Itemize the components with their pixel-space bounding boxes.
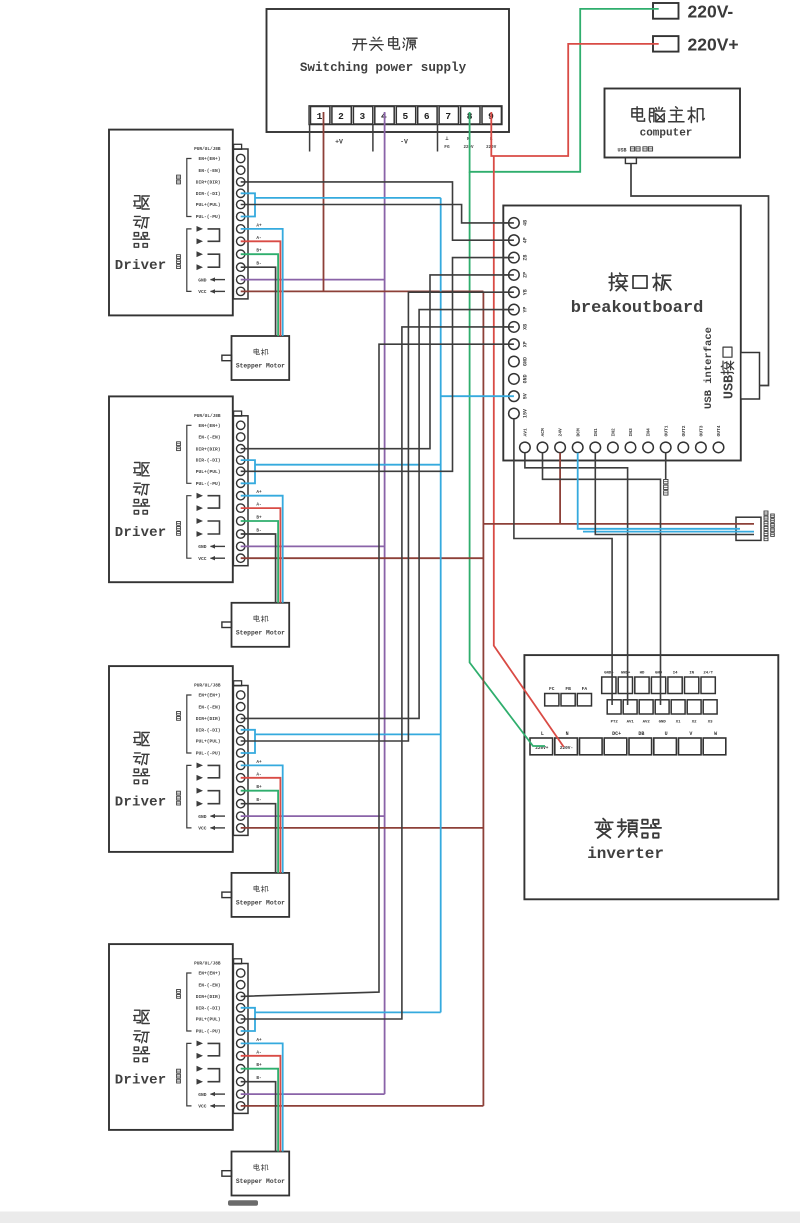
driver U2 terminal 10 [237, 263, 245, 271]
driver U2 pin name labels [194, 147, 221, 220]
driver U3 input group bracket [177, 425, 192, 483]
svg-text:USB: USB [723, 375, 738, 399]
driver U4 terminal 3 [237, 714, 245, 722]
driver U4 terminal 4 [237, 726, 245, 734]
driver U2 terminal 2 [237, 166, 245, 174]
inverter FC FB FA terminals [545, 686, 592, 706]
driver U3 high voltage bracket [177, 496, 192, 559]
wire blue 5V tap driver U5 [255, 1011, 441, 1013]
driver U5 terminal 7 [237, 1039, 245, 1047]
wire DIR driver U2 to pin 2 [241, 182, 514, 240]
wire AV1 to inverter AV1 [525, 453, 628, 705]
wire 15V to inverter PT2 [514, 419, 612, 705]
svg-text:7: 7 [445, 111, 451, 122]
svg-text:B-: B- [256, 529, 261, 534]
svg-text:Switching power supply: Switching power supply [300, 61, 467, 75]
svg-text:FB: FB [565, 686, 571, 692]
board left pin 7 XB [503, 322, 528, 333]
bus -V purple: terminal 4 to driver GND pins [384, 112, 386, 1094]
wire motor phase B- black M3 [241, 804, 276, 873]
svg-text:Driver: Driver [115, 525, 167, 541]
svg-text:GND: GND [198, 277, 207, 283]
svg-text:YB: YB [522, 289, 528, 295]
svg-text:4P: 4P [522, 237, 528, 243]
svg-text:A+: A+ [256, 760, 262, 765]
wire green bus: terminal 8 down to inverter L [470, 172, 545, 746]
board bottom pin 2 ACM [537, 428, 548, 453]
svg-text:DB: DB [638, 731, 644, 737]
svg-text:IN3: IN3 [628, 428, 634, 437]
driver U3 terminal 11 [237, 542, 245, 550]
svg-text:DIR+(DIR): DIR+(DIR) [196, 994, 221, 1000]
wire motor phase A- red M2 [241, 508, 281, 603]
svg-text:X2: X2 [692, 721, 697, 725]
wire PUL driver U5 to pin 7 [241, 327, 514, 1019]
terminal group separators [310, 125, 438, 152]
stepper driver U3 [109, 396, 233, 582]
driver U3 terminal 6 [237, 479, 245, 487]
driver U4 terminal 8 [237, 774, 245, 782]
driver U4 GND pin [198, 814, 225, 820]
svg-text:PUL-(-PU): PUL-(-PU) [196, 481, 221, 487]
wire cyan return to speed connector [583, 531, 754, 533]
driver U3 winding symbols [197, 493, 220, 537]
svg-text:B+: B+ [256, 249, 262, 254]
svg-text:L: L [541, 731, 544, 737]
wire motor phase A+ blue M4 [241, 1043, 283, 1151]
board left pin 10 GND [509, 374, 529, 385]
svg-text:DIR-(-DI): DIR-(-DI) [196, 191, 221, 197]
label speed knob (rotated tiny) [764, 511, 774, 541]
wire ACM to inverter GND [543, 453, 661, 705]
wire purple stub driver U4 GND [241, 815, 385, 817]
svg-text:DC+: DC+ [612, 731, 621, 737]
stepper motor M3 [222, 873, 289, 917]
driver U2 terminal 6 [237, 212, 245, 220]
svg-text:1: 1 [317, 111, 323, 122]
wire VCC driver U4 [241, 827, 484, 829]
wire purple stub driver U3 GND [241, 545, 385, 547]
svg-text:A-: A- [256, 1050, 261, 1055]
driver U3 GND pin [198, 544, 225, 550]
wire 24V feed to speed connector [483, 523, 754, 525]
svg-text:USB interface: USB interface [703, 327, 715, 409]
svg-text:24V: 24V [558, 428, 564, 437]
driver U5 terminal 6 [237, 1027, 245, 1035]
board bottom pin 1 AV1 [520, 428, 531, 453]
svg-text:AV2: AV2 [643, 721, 651, 725]
svg-text:PUL-(-PU): PUL-(-PU) [196, 214, 221, 220]
svg-text:GND: GND [198, 814, 207, 820]
driver U5 GND pin [198, 1092, 225, 1098]
svg-text:I4: I4 [673, 672, 678, 676]
svg-text:Driver: Driver [115, 795, 167, 811]
inverter power terminal row L N DC+ DB U V W [530, 731, 726, 755]
driver U4 winding symbols [197, 763, 220, 807]
wire OUT1 relay stub [665, 453, 667, 480]
svg-text:IN4: IN4 [646, 428, 652, 437]
svg-text:GND: GND [198, 1092, 207, 1098]
svg-text:Stepper Motor: Stepper Motor [236, 1178, 285, 1185]
svg-text:FC: FC [549, 686, 555, 692]
driver U5 pin name labels [194, 962, 221, 1035]
svg-text:2: 2 [338, 111, 344, 122]
svg-text:USB: USB [617, 148, 626, 154]
svg-text:B-: B- [256, 262, 261, 267]
labels A+ A- B+ B- of driver U3 [256, 490, 262, 533]
svg-text:ZP: ZP [522, 272, 528, 278]
220V+ terminal block [653, 35, 739, 55]
wire blue 5V to board pin 11 [441, 395, 514, 397]
driver U4 terminal 6 [237, 749, 245, 757]
svg-text:15V: 15V [522, 409, 528, 418]
USB connector port on board [741, 353, 760, 400]
board bottom pin 3 24V [555, 428, 566, 453]
wire motor phase B+ green M4 [241, 1069, 278, 1152]
wire purple stub driver U2 GND [241, 279, 385, 281]
driver U5 terminal 1 [237, 969, 245, 977]
switching power supply PS1 [267, 9, 510, 132]
inverter VFD1 box [524, 655, 778, 899]
svg-text:ZB: ZB [522, 255, 528, 261]
wire PUL driver U4 to pin 5 [241, 292, 514, 741]
driver U3 terminal 7 [237, 492, 245, 500]
svg-text:GND: GND [522, 374, 528, 383]
driver U5 terminal 11 [237, 1090, 245, 1098]
svg-text:PUL+(PUL): PUL+(PUL) [196, 469, 221, 475]
board left pin 3 ZB [503, 252, 528, 263]
svg-text:EN-(-EN): EN-(-EN) [198, 168, 220, 174]
svg-text:VCC: VCC [198, 556, 207, 562]
driver U5 terminal 2 [237, 981, 245, 989]
svg-text:VCC: VCC [198, 826, 207, 832]
driver U2 terminal 4 [237, 189, 245, 197]
svg-text:FG: FG [444, 144, 450, 150]
driver U2 terminal 7 [237, 225, 245, 233]
svg-text:PUL-(-PU): PUL-(-PU) [196, 1029, 221, 1035]
driver U5 terminal strip [233, 959, 248, 1114]
labels A+ A- B+ B- of driver U2 [256, 223, 262, 266]
svg-text:220V-: 220V- [560, 746, 573, 751]
svg-text:inverter: inverter [587, 845, 664, 863]
driver U4 terminal 2 [237, 703, 245, 711]
labels A+ A- B+ B- of driver U5 [256, 1038, 262, 1081]
wire blue 5V tap driver U3 [255, 464, 441, 466]
driver U2 terminal 12 [237, 287, 245, 295]
wire USB cable: computer to board [631, 164, 769, 386]
driver U5 terminal 9 [237, 1065, 245, 1073]
board left pin 8 XP [503, 339, 528, 350]
svg-text:EN+(EN+): EN+(EN+) [198, 423, 220, 429]
svg-text:DIR+(DIR): DIR+(DIR) [196, 716, 221, 722]
wire purple stub driver U5 GND [241, 1093, 385, 1095]
bus +V dark red: terminal 1 down [323, 112, 325, 291]
driver U4 terminal 9 [237, 787, 245, 795]
label FG [444, 135, 450, 150]
driver U5 VCC pin [198, 1104, 225, 1110]
label USB jiekou [721, 347, 737, 399]
svg-text:XP: XP [522, 341, 528, 347]
svg-text:B+: B+ [256, 516, 262, 521]
driver U5 terminal 5 [237, 1015, 245, 1023]
board bottom pin 9 OUT1 [660, 425, 671, 452]
wire motor phase B+ green M1 [241, 254, 278, 336]
driver U5 input group bracket [177, 973, 192, 1031]
svg-text:computer: computer [640, 128, 693, 140]
svg-text:GND+: GND+ [621, 672, 631, 676]
label L 220V [486, 136, 497, 150]
label USB cable port [617, 147, 652, 154]
driver U2 terminal 9 [237, 250, 245, 258]
svg-text:IN: IN [689, 672, 694, 676]
svg-text:EN-(-EN): EN-(-EN) [198, 982, 220, 988]
driver U4 pin name labels [194, 684, 221, 757]
blue jumper loop driver U2 [241, 193, 255, 216]
driver U4 terminal strip [233, 681, 248, 836]
blue jumper loop driver U5 [241, 1008, 255, 1031]
driver U3 terminal 5 [237, 467, 245, 475]
svg-text:U: U [665, 731, 668, 737]
svg-text:YP: YP [522, 307, 528, 313]
svg-text:XB: XB [522, 324, 528, 330]
svg-text:AV1: AV1 [627, 721, 635, 725]
label relay (rotated tiny) [664, 480, 668, 484]
driver U5 winding symbols [197, 1041, 220, 1085]
bus 5V blue vertical [440, 198, 442, 1013]
blue jumper loop driver U3 [241, 460, 255, 483]
svg-text:PUR/UL/J8B: PUR/UL/J8B [194, 414, 221, 419]
driver U2 terminal 8 [237, 237, 245, 245]
driver U3 terminal 10 [237, 530, 245, 538]
inverter control terminal row 2 [607, 700, 717, 725]
svg-text:W: W [714, 731, 717, 737]
wire blue 5V tap driver U4 [255, 733, 441, 735]
board bottom pin 7 IN3 [625, 428, 636, 453]
svg-text:B+: B+ [256, 785, 262, 790]
wire 220V- green: terminal 8 to 220V- block [470, 9, 659, 172]
wire DIR driver U3 to pin 4 [241, 275, 514, 449]
svg-text:PUL+(PUL): PUL+(PUL) [196, 202, 221, 208]
svg-text:5: 5 [402, 111, 408, 122]
svg-text:DIR-(-DI): DIR-(-DI) [196, 458, 221, 464]
svg-text:DIR+(DIR): DIR+(DIR) [196, 446, 221, 452]
blue jumper loop driver U4 [241, 730, 255, 753]
driver U3 terminal 9 [237, 517, 245, 525]
svg-text:EN+(EN+): EN+(EN+) [198, 971, 220, 977]
svg-text:GND: GND [198, 544, 207, 550]
driver U4 VCC pin [198, 826, 225, 832]
svg-text:GND: GND [659, 721, 667, 725]
svg-text:Driver: Driver [115, 1073, 167, 1089]
svg-text:V: V [689, 731, 692, 737]
wire PUL driver U3 to pin 3 [241, 258, 514, 472]
computer PC1 [605, 89, 741, 158]
stepper motor M4 [222, 1152, 289, 1196]
wire red branch: to inverter N [494, 156, 564, 747]
svg-text:PUL+(PUL): PUL+(PUL) [196, 1017, 221, 1023]
scrollbar thumb [228, 1200, 258, 1206]
board left pin 4 ZP [503, 270, 528, 281]
board bottom pin 8 IN4 [643, 428, 654, 453]
svg-text:B-: B- [256, 798, 261, 803]
speed potentiometer connector J2 [736, 517, 761, 540]
board left pin 12 15V [509, 408, 529, 419]
stepper motor M2 [222, 603, 289, 647]
svg-text:PUL+(PUL): PUL+(PUL) [196, 739, 221, 745]
board bottom pin 12 OUT4 [713, 425, 724, 452]
wire motor phase B+ green M2 [241, 521, 278, 603]
svg-text:IN1: IN1 [593, 428, 599, 437]
board left pin 11 5V [509, 391, 529, 402]
driver U3 terminal 2 [237, 433, 245, 441]
wire VCC driver U3 [241, 557, 484, 559]
driver U3 terminal 1 [237, 421, 245, 429]
driver U3 terminal 8 [237, 504, 245, 512]
wire motor phase A+ blue M3 [241, 765, 283, 873]
board bottom pin 11 OUT3 [696, 425, 707, 452]
wire IN1 black to speed connector [595, 453, 754, 535]
svg-text:5V: 5V [522, 393, 528, 399]
svg-text:A-: A- [256, 503, 261, 508]
svg-text:GND: GND [522, 357, 528, 366]
driver U5 high voltage bracket [177, 1043, 192, 1106]
driver U4 terminal 11 [237, 812, 245, 820]
wire DIR driver U5 to pin 8 [241, 344, 514, 996]
wire VCC driver U5 [241, 1105, 484, 1107]
driver U2 GND pin [198, 277, 225, 283]
labels A+ A- B+ B- of driver U4 [256, 760, 262, 803]
svg-text:EN+(EN+): EN+(EN+) [198, 693, 220, 699]
svg-text:IN2: IN2 [611, 428, 617, 437]
svg-text:N: N [566, 731, 569, 737]
driver U4 terminal 7 [237, 761, 245, 769]
wire VCC driver U2 dark red [241, 290, 484, 292]
driver U2 terminal strip [233, 144, 248, 299]
wire motor phase B- black M4 [241, 1082, 276, 1152]
svg-text:220V-: 220V- [688, 2, 734, 22]
board left pin 6 YP [503, 304, 528, 315]
svg-text:PUL-(-PU): PUL-(-PU) [196, 751, 221, 757]
svg-text:PUR/UL/J8B: PUR/UL/J8B [194, 147, 221, 152]
svg-text:A+: A+ [256, 1038, 262, 1043]
svg-text:DIR-(-DI): DIR-(-DI) [196, 727, 221, 733]
svg-text:A+: A+ [256, 490, 262, 495]
wire 220V+ red: terminal 9 to 220V+ block [491, 44, 658, 156]
svg-text:OUT1: OUT1 [663, 425, 669, 436]
svg-text:VCC: VCC [198, 289, 207, 295]
board bottom pin 6 IN2 [608, 428, 619, 453]
svg-text:Stepper Motor: Stepper Motor [236, 629, 285, 636]
wire DIR driver U4 to pin 6 [241, 310, 514, 719]
label N 220V [463, 136, 474, 150]
inverter control terminal row 1 [602, 671, 716, 694]
board bottom pin 5 IN1 [590, 428, 601, 453]
driver U4 terminal 12 [237, 824, 245, 832]
driver U5 terminal 4 [237, 1004, 245, 1012]
driver U3 terminal strip [233, 411, 248, 566]
svg-text:GND: GND [655, 672, 663, 676]
board left pin 2 4P [503, 235, 528, 246]
svg-text:FA: FA [582, 686, 588, 692]
driver U2 input group bracket [177, 159, 192, 217]
driver U4 terminal 5 [237, 737, 245, 745]
wire motor phase B- black M1 [241, 267, 276, 336]
svg-text:OUT4: OUT4 [716, 425, 722, 436]
svg-text:OUT2: OUT2 [681, 425, 687, 436]
wire motor phase B- black M2 [241, 534, 276, 603]
wire motor phase A+ blue M2 [241, 496, 283, 603]
svg-text:EN+(EN+): EN+(EN+) [198, 156, 220, 162]
driver U5 terminal 10 [237, 1078, 245, 1086]
driver U3 terminal 4 [237, 456, 245, 464]
svg-text:DIR+(DIR): DIR+(DIR) [196, 180, 221, 186]
svg-text:220V+: 220V+ [688, 35, 739, 55]
wire motor phase A- red M4 [241, 1056, 281, 1152]
driver U3 terminal 12 [237, 554, 245, 562]
wire motor phase A+ blue M1 [241, 229, 283, 336]
svg-text:A+: A+ [256, 223, 262, 228]
driver U2 terminal 11 [237, 275, 245, 283]
board bottom pin 10 OUT2 [678, 425, 689, 452]
driver U2 terminal 3 [237, 178, 245, 186]
driver U3 VCC pin [198, 556, 225, 562]
wire PUL driver U2 to pin 1 [241, 205, 514, 223]
220V- terminal block [653, 2, 733, 22]
bottom scrollbar track [0, 1212, 800, 1223]
board bottom pin 4 DCM [572, 428, 583, 453]
svg-text:A-: A- [256, 772, 261, 777]
wire DCM cyan to speed connector [578, 453, 740, 529]
driver U2 VCC pin [198, 289, 225, 295]
svg-text:-V: -V [400, 139, 408, 146]
svg-text:EN-(-EN): EN-(-EN) [198, 704, 220, 710]
driver U4 terminal 10 [237, 800, 245, 808]
driver U3 pin name labels [194, 414, 221, 487]
svg-text:PUR/UL/J8B: PUR/UL/J8B [194, 962, 221, 967]
wire motor phase A- red M1 [241, 241, 281, 336]
svg-text:3: 3 [360, 111, 366, 122]
svg-text:A-: A- [256, 236, 261, 241]
bus dark red VCC right side [482, 291, 484, 1106]
svg-text:breakoutboard: breakoutboard [571, 299, 704, 318]
svg-text:Stepper Motor: Stepper Motor [236, 899, 285, 906]
board left pin 1 4B [503, 218, 528, 229]
svg-text:PUR/UL/J8B: PUR/UL/J8B [194, 684, 221, 689]
driver U5 terminal 12 [237, 1102, 245, 1110]
svg-text:B-: B- [256, 1076, 261, 1081]
stepper motor M1 [222, 336, 289, 380]
driver U5 terminal 3 [237, 992, 245, 1000]
driver U4 high voltage bracket [177, 765, 192, 828]
wire 24V pin drop [559, 453, 561, 524]
wire motor phase A- red M3 [241, 778, 281, 873]
svg-text:HD: HD [640, 672, 645, 676]
driver U2 terminal 1 [237, 154, 245, 162]
stepper driver U4 [109, 666, 233, 852]
driver U2 terminal 5 [237, 200, 245, 208]
svg-text:4B: 4B [522, 220, 528, 226]
svg-text:PT2: PT2 [611, 721, 619, 725]
svg-text:Stepper Motor: Stepper Motor [236, 363, 285, 370]
svg-text:VCC: VCC [198, 1104, 207, 1110]
driver U2 high voltage bracket [177, 229, 192, 292]
breakout board U1 [503, 206, 741, 461]
svg-text:DCM: DCM [575, 428, 581, 437]
svg-text:ACM: ACM [540, 428, 546, 437]
driver U4 input group bracket [177, 695, 192, 753]
stepper driver U5 [109, 944, 233, 1130]
wire motor phase B+ green M3 [241, 791, 278, 873]
